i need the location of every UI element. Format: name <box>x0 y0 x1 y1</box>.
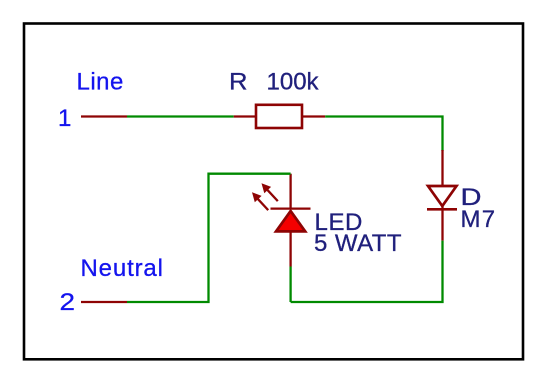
node 2 pin (left port) <box>81 301 127 303</box>
svg-text:M7: M7 <box>461 206 497 233</box>
svg-text:100k: 100k <box>267 69 320 96</box>
svg-text:R: R <box>229 69 248 96</box>
svg-text:Line: Line <box>77 69 124 96</box>
LED top pin <box>289 174 291 209</box>
diode D M7 symbol <box>427 186 457 209</box>
wire to diode top <box>325 117 442 152</box>
svg-text:5 WATT: 5 WATT <box>314 230 402 257</box>
diode D bottom pin <box>441 209 443 240</box>
resistor R1 left pin <box>234 115 256 117</box>
node 1 pin (left port) <box>81 115 127 117</box>
wire LED bottom stub <box>289 267 291 303</box>
LED arrow 1 <box>262 183 278 201</box>
LED arrow 2 <box>252 192 268 210</box>
svg-text:1: 1 <box>58 105 71 132</box>
border frame <box>24 24 523 360</box>
LED bottom pin <box>289 232 291 267</box>
wire net Line top <box>127 115 234 117</box>
wire diode bottom to LED bottom <box>291 241 443 302</box>
svg-text:Neutral: Neutral <box>81 255 164 282</box>
svg-text:2: 2 <box>60 289 76 316</box>
LED body triangle <box>276 211 305 231</box>
wire net top of LED <box>127 174 291 302</box>
LED cathode bar <box>271 207 311 209</box>
resistor R 100k body <box>256 105 302 128</box>
diode D top pin <box>441 150 443 186</box>
resistor R1 right pin <box>302 115 325 117</box>
